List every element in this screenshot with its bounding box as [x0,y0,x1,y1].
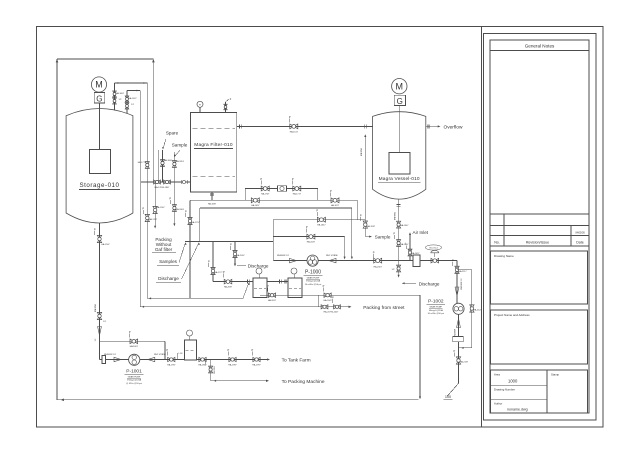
discharge diagonal [447,383,459,396]
pump P-1002 [453,303,464,314]
svg-text:HA-1637: HA-1637 [307,240,316,243]
svg-text:HA-20790-2027: HA-20790-2027 [324,311,340,314]
svg-text:10 m3/hr @50 psi: 10 m3/hr @50 psi [305,283,322,286]
svg-text:HA-1841: HA-1841 [164,159,173,162]
svg-text:Magra Vessel-010: Magra Vessel-010 [379,176,420,182]
valve HA-2037 [321,305,328,309]
svg-text:P: P [289,115,291,119]
svg-text:Discharge: Discharge [248,263,269,268]
svg-text:P: P [169,197,171,201]
svg-text:HA-1717: HA-1717 [293,192,302,195]
svg-text:BN2 1/2/BNF: BN2 1/2/BNF [326,255,339,257]
filter level dash 1 [193,128,236,130]
svg-text:Sample: Sample [375,235,391,240]
svg-text:P: P [360,214,362,218]
capped sample pipe [154,182,156,227]
manifold valve 1 [154,180,161,184]
outlet drop to bottom line [419,295,421,398]
line B [190,199,358,201]
svg-text:GEAR PUMP: GEAR PUMP [430,306,443,309]
svg-text:1000: 1000 [508,379,518,384]
svg-text:Storage-010: Storage-010 [79,182,119,189]
pump P-1000 suction [273,260,307,262]
label Discharge right [402,282,416,284]
svg-text:Air Inlet: Air Inlet [413,230,429,235]
svg-text:P-1001: P-1001 [126,368,142,374]
info box [491,370,588,413]
vertical run C [153,62,155,182]
svg-text:BNF/BN2 1/2: BNF/BN2 1/2 [104,354,117,356]
svg-text:HA-1627: HA-1627 [128,97,137,100]
svg-text:HA-2117: HA-2117 [458,270,467,273]
svg-text:HA-2097: HA-2097 [236,254,245,257]
svg-text:BNF/BNZ: BNF/BNZ [394,211,396,220]
svg-text:Stamp: Stamp [551,373,560,377]
sight glass [278,186,287,192]
valve HA-1817 [199,357,206,361]
packing machine branch [210,360,212,381]
svg-text:HA-1807: HA-1807 [130,345,139,348]
tank outlet valve [97,235,101,242]
valve HA-2007 [374,258,382,263]
svg-text:Magra Filter-010: Magra Filter-010 [194,142,233,148]
svg-text:Samples: Samples [159,259,178,264]
valve HA-2127 [470,305,474,312]
vent jumper 2 [127,90,140,92]
valve HA-2137 [456,357,460,364]
filter pot B [288,278,302,298]
svg-text:10 m3/hr @50 psi: 10 m3/hr @50 psi [428,312,445,315]
valve HA-2097 [233,250,237,257]
valve HA-1957v [397,240,401,247]
left extension line [56,59,58,400]
discharge reducer [329,258,336,262]
svg-text:BNF/BN2 1/2: BNF/BN2 1/2 [277,255,290,257]
svg-text:P: P [330,189,332,193]
manifold valve 2 [164,180,171,184]
svg-text:Spare: Spare [166,131,179,136]
vertical x190 [189,200,191,298]
svg-text:G: G [397,97,403,106]
sample return line [147,297,243,299]
reducer up right [457,319,461,328]
valve HA-1717 [293,186,301,191]
valve on run B upper [145,162,149,169]
svg-text:Project Name and Address: Project Name and Address [494,313,530,317]
line E [273,236,344,238]
title block box [490,40,589,413]
svg-text:100: 100 [445,395,451,399]
svg-text:HA-2057: HA-2057 [268,299,277,302]
filter gauge [197,101,203,107]
flange vessel A [247,280,249,284]
svg-text:P: P [223,270,225,274]
vessel inlet manifold [213,281,288,283]
pump P-1000 [307,255,318,266]
valve HA-1987 [229,357,236,361]
bottom long pipe [57,399,419,401]
suction reducer [290,258,297,262]
suction line P-1001 [100,359,129,361]
vertical run D [158,150,160,182]
svg-text:P: P [252,348,254,352]
svg-text:P: P [452,259,454,263]
packing street branch [318,295,320,307]
svg-text:HA-1817: HA-1817 [198,363,207,366]
sheet outer border [37,27,604,428]
svg-text:HA-1851: HA-1851 [176,160,185,163]
svg-text:HA-1937: HA-1937 [367,225,376,228]
svg-text:HA-1987: HA-1987 [228,363,237,366]
svg-text:Revision/Issue: Revision/Issue [526,241,549,245]
vessel gearbox G [394,95,405,105]
svg-text:04/05/05: 04/05/05 [575,232,585,235]
to tank farm line [197,359,269,361]
valve HA-1767 [209,366,213,373]
filter outlet line [237,125,373,127]
svg-text:No.: No. [494,241,500,245]
svg-text:HA-1861: HA-1861 [176,208,185,211]
svg-text:To Tank Farm: To Tank Farm [282,358,311,364]
svg-text:Drawing Name: Drawing Name [494,254,514,258]
svg-text:P: P [142,207,144,211]
svg-text:Viking-LQ124A: Viking-LQ124A [429,309,444,312]
discharge drop x235 [234,242,236,266]
flange vessel B [279,280,281,284]
svg-text:HA-2087: HA-2087 [224,285,233,288]
svg-text:BNF/BNZ: BNF/BNZ [95,303,97,312]
pump P-1000 discharge [319,260,457,262]
to packing machine arrow [266,380,269,382]
valve HA-1647 [317,217,325,222]
svg-text:NO-CV-3: NO-CV-3 [429,248,438,250]
header y241.6 [185,241,273,243]
valve HA-1787b [168,357,175,361]
vertical run B [146,83,148,298]
valve HA-2057 [268,293,275,297]
svg-text:BNF/BNZ: BNF/BNZ [361,147,363,156]
filter Magra Filter-010 body [191,113,237,193]
svg-text:HA-1947: HA-1947 [101,243,110,246]
suction reducer P-1001 [114,357,121,361]
air inlet pipe [409,234,411,261]
P-1002 discharge [458,314,460,383]
svg-text:P: P [323,284,325,288]
svg-text:HA-1967: HA-1967 [156,206,165,209]
hose connector [453,337,463,342]
svg-text:P: P [306,225,308,229]
svg-text:General Notes: General Notes [525,44,555,49]
vent jumper 1 [115,82,148,84]
manifold connector [182,180,185,183]
gearbox G [94,93,105,104]
svg-text:M: M [396,81,404,91]
agitator motor M [91,77,106,92]
valve HA-1807 [130,339,138,344]
svg-text:P: P [267,284,269,288]
vessel discharge drop [398,261,400,277]
valve HA-1947v [397,221,401,228]
sample riser [364,136,366,237]
bypass line P-1002 [457,269,472,271]
svg-text:Author: Author [494,402,502,406]
vessel motor M [392,79,407,94]
valve on x190 [188,217,192,224]
pot P-1001 [185,340,197,360]
flange at vessel inlet [363,124,365,128]
to tank farm arrow [267,358,270,360]
sample pipe [173,152,175,225]
title area mid frame [484,34,597,421]
svg-text:noname.dwg: noname.dwg [507,408,528,412]
svg-text:HA-1687: HA-1687 [208,203,217,206]
svg-text:P: P [94,228,96,232]
svg-text:Date: Date [576,241,584,245]
valve HA-2117 [455,266,459,273]
pot P-1001 gauge [187,330,193,336]
valve HA-1637 [307,234,315,239]
svg-text:Packing from street: Packing from street [363,305,405,311]
svg-text:P: P [208,260,210,264]
main line corner to P-1002 [456,261,458,304]
valve on x213 [211,267,215,274]
svg-text:HA-2137: HA-2137 [460,361,469,364]
svg-text:P: P [166,348,168,352]
svg-text:HA-1677: HA-1677 [331,204,340,207]
svg-text:G: G [96,95,102,104]
inline component rect [413,255,420,267]
svg-text:HA-2047: HA-2047 [323,299,332,302]
revision table column dividers [503,214,505,246]
svg-text:HA-1707: HA-1707 [261,192,270,195]
svg-text:P: P [205,358,207,362]
reducer down right [455,287,459,296]
svg-text:HA-1617: HA-1617 [290,130,299,133]
control valve [431,258,439,263]
valve HA-1617 [290,124,298,129]
tag L18 [177,353,179,360]
filter pot A [253,278,267,298]
vertical x213 [212,242,214,282]
line D [273,219,365,221]
vessel agitator shaft [398,106,400,154]
svg-text:P: P [185,210,187,214]
discharge reducer P-1001 [148,357,155,361]
project name box [491,310,588,364]
svg-text:GEAR PUMP: GEAR PUMP [128,375,141,378]
line A [245,188,318,190]
line C [200,207,352,209]
svg-text:P: P [393,232,395,236]
valve HA-2087 [224,279,232,284]
svg-text:HA-1697: HA-1697 [251,204,260,207]
svg-text:P: P [260,177,262,181]
svg-text:GEAR PUMP: GEAR PUMP [307,276,320,279]
svg-text:P: P [230,243,232,247]
valve HA-2027 [334,305,341,309]
tank outlet valve 2 [97,312,101,319]
svg-text:HA-1771: HA-1771 [138,161,147,164]
drawing name box [491,251,588,304]
svg-text:P: P [129,330,131,334]
tank nozzle vent 1 [114,83,116,111]
label Discharge mid [237,265,246,267]
svg-text:Sample: Sample [172,143,188,148]
svg-text:HA-1997: HA-1997 [252,363,261,366]
bypass P-1001 [100,340,166,342]
flex connector [102,356,106,364]
pot B gauge [291,268,297,274]
filter level dash 2 [193,175,236,177]
svg-text:Viking-LQ124A: Viking-LQ124A [127,379,142,382]
valve on air inlet [408,249,412,256]
svg-text:Gaf filter: Gaf filter [155,247,173,252]
svg-text:HA-1647: HA-1647 [317,224,326,227]
tag NO-CV-3 [425,245,441,250]
svg-text:HA-2027: HA-2027 [411,252,420,255]
svg-text:P: P [454,349,456,353]
svg-text:Discharge: Discharge [419,281,440,286]
packing street line [140,306,350,308]
svg-text:To Packing Machine: To Packing Machine [282,379,325,385]
svg-text:Overflow: Overflow [444,124,463,130]
svg-text:HA-2127: HA-2127 [473,309,482,312]
svg-text:P: P [373,250,375,254]
packing street arrow [349,306,352,308]
svg-text:HA-17894-1807: HA-17894-1807 [155,186,171,189]
svg-text:BNF/BN2: BNF/BN2 [214,366,216,374]
tank bottom outlet pipe [99,223,101,360]
tank outlet reducer [98,327,102,336]
valve HA-1697 [251,198,259,203]
svg-text:P-1000: P-1000 [305,270,321,276]
svg-text:HA-2007: HA-2007 [374,266,383,269]
tank Storage-010 body [66,109,133,224]
svg-text:M: M [95,80,103,90]
tank nozzle vent 2 [126,91,128,114]
svg-text:BNF/BN2 1/2: BNF/BN2 1/2 [461,278,463,289]
valve HA-1707 [261,186,269,191]
flange at filter outlet [239,124,241,128]
svg-text:1/2: 1/2 [95,339,97,342]
svg-text:Area: Area [494,373,500,377]
svg-text:P: P [316,208,318,212]
valve HA-1997 [253,357,260,361]
overflow line [426,125,438,127]
P-1001 discharge [139,359,184,361]
valve on run B [145,214,149,221]
suction vertical x273 [272,220,274,261]
pump P-1001 [129,354,140,365]
vessel agitator impeller [389,153,410,175]
svg-text:HA-1947: HA-1947 [400,224,409,227]
svg-text:P: P [332,295,334,299]
filter top valve [225,102,227,113]
sample takeoff [365,236,370,238]
outlet manifold [260,294,420,296]
valve HA-2017 [397,265,401,272]
svg-text:@ 42/hr @50 psi: @ 42/hr @50 psi [126,382,142,385]
spare pipe [162,150,164,182]
svg-text:Drawing Number: Drawing Number [494,388,515,392]
tank Magra Vessel-010 body [373,112,426,199]
drawing area divider [481,27,483,428]
svg-text:HA-1757: HA-1757 [191,221,200,224]
svg-text:P: P [228,348,230,352]
svg-text:Discharge: Discharge [158,276,179,281]
vessel bottom outlet [398,199,400,261]
manifold line [141,181,191,183]
svg-text:P: P [292,177,294,181]
svg-text:HA-1787: HA-1787 [149,218,158,221]
valve HA-1937 [363,221,367,228]
svg-text:HA-1787: HA-1787 [167,363,176,366]
agitator shaft [99,103,101,150]
svg-text:HA-1607: HA-1607 [116,92,125,95]
revision table row lines [490,213,589,215]
valve HA-2047 [324,293,331,297]
svg-text:P-1002: P-1002 [428,299,444,305]
vertical run A [139,91,141,307]
valve HA-1677 [331,198,339,203]
agitator impeller [90,150,111,174]
dimension line [57,58,153,60]
filter drain [211,192,213,200]
pot A gauge [256,268,262,274]
svg-text:Viking-LQ124A: Viking-LQ124A [306,280,321,283]
svg-text:BN2/BNF: BN2/BNF [454,328,456,337]
